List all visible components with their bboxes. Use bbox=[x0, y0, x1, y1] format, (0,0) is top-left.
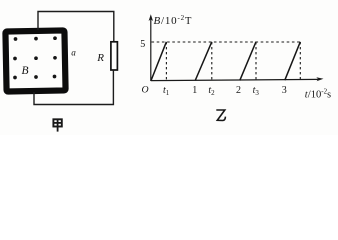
dashed drop at t2 bbox=[211, 42, 213, 80]
svg-text:3: 3 bbox=[282, 85, 287, 96]
svg-text:B/10-2T: B/10-2T bbox=[154, 14, 193, 27]
B axis (vertical, graph 乙) bbox=[150, 17, 152, 82]
svg-text:R: R bbox=[96, 52, 104, 64]
svg-text:2: 2 bbox=[236, 85, 241, 96]
field dots (B out of page) row 1 bbox=[14, 36, 57, 41]
svg-text:B: B bbox=[22, 65, 29, 77]
ramp 2 (1 to t2) bbox=[195, 42, 212, 81]
t axis (horizontal) bbox=[151, 79, 319, 80]
caption 甲 (figure jia, drawn strokes) bbox=[53, 119, 61, 131]
dashed drop at t3 bbox=[255, 42, 257, 80]
wire bottom (resistor bottom to frame bottom) bbox=[34, 70, 113, 105]
ramp 4 (3 to t4) bbox=[285, 42, 301, 80]
coil a (thick square frame of loop in field region) bbox=[5, 30, 65, 91]
svg-text:1: 1 bbox=[192, 85, 197, 96]
resistor R bbox=[111, 42, 118, 70]
svg-text:5: 5 bbox=[140, 39, 145, 50]
dashed drop at t4 bbox=[299, 42, 301, 80]
dashed drop at t1 bbox=[165, 42, 167, 80]
field dots row 2 bbox=[13, 56, 57, 60]
B axis arrowhead bbox=[149, 14, 153, 21]
t axis arrowhead bbox=[316, 77, 323, 81]
svg-text:a: a bbox=[71, 48, 76, 58]
svg-text:t/10-2s: t/10-2s bbox=[305, 88, 331, 101]
caption 乙 (figure yi, drawn strokes) bbox=[216, 110, 225, 121]
dashed level line B=5 bbox=[152, 41, 301, 43]
ramp 1 (0 to t1) bbox=[151, 42, 166, 81]
ramp 3 (2 to t3) bbox=[240, 42, 256, 81]
field dots row 3 bbox=[13, 75, 56, 80]
wire top (frame top to resistor top) bbox=[38, 12, 114, 42]
svg-text:O: O bbox=[142, 84, 149, 95]
